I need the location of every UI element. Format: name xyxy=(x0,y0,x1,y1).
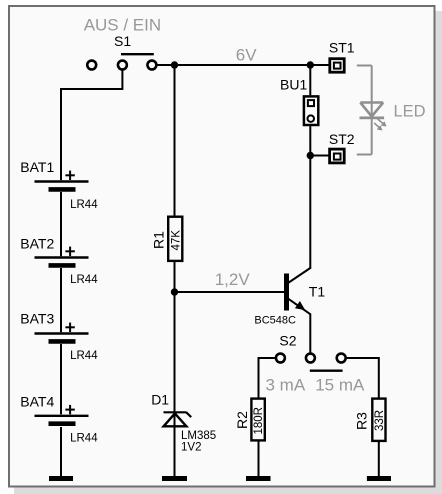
svg-text:15 mA: 15 mA xyxy=(315,376,365,395)
svg-text:LR44: LR44 xyxy=(70,274,98,286)
svg-text:S1: S1 xyxy=(114,33,131,49)
svg-text:LR44: LR44 xyxy=(70,432,98,444)
svg-text:R3: R3 xyxy=(354,412,370,430)
svg-text:LM385: LM385 xyxy=(181,430,216,442)
svg-text:1,2V: 1,2V xyxy=(215,270,251,289)
svg-text:R1: R1 xyxy=(151,231,167,249)
svg-text:BAT2: BAT2 xyxy=(20,235,54,251)
svg-text:BU1: BU1 xyxy=(280,77,307,93)
svg-text:BC548C: BC548C xyxy=(254,315,296,327)
svg-text:6V: 6V xyxy=(236,46,257,65)
svg-text:BAT1: BAT1 xyxy=(20,159,54,175)
svg-text:180R: 180R xyxy=(253,407,265,435)
svg-text:R2: R2 xyxy=(234,411,250,429)
svg-text:AUS / EIN: AUS / EIN xyxy=(84,15,161,34)
svg-text:1V2: 1V2 xyxy=(181,441,201,453)
svg-text:BAT4: BAT4 xyxy=(20,394,54,410)
svg-text:ST2: ST2 xyxy=(329,131,355,147)
svg-text:D1: D1 xyxy=(151,391,169,407)
svg-text:S2: S2 xyxy=(279,333,296,349)
svg-text:T1: T1 xyxy=(309,283,326,299)
svg-text:LR44: LR44 xyxy=(70,350,98,362)
svg-text:47K: 47K xyxy=(170,230,182,251)
svg-text:3 mA: 3 mA xyxy=(266,376,306,395)
svg-text:LED: LED xyxy=(394,102,426,120)
svg-text:ST1: ST1 xyxy=(329,40,355,56)
svg-text:LR44: LR44 xyxy=(70,199,98,211)
svg-text:BAT3: BAT3 xyxy=(20,311,54,327)
svg-text:33R: 33R xyxy=(374,410,386,431)
